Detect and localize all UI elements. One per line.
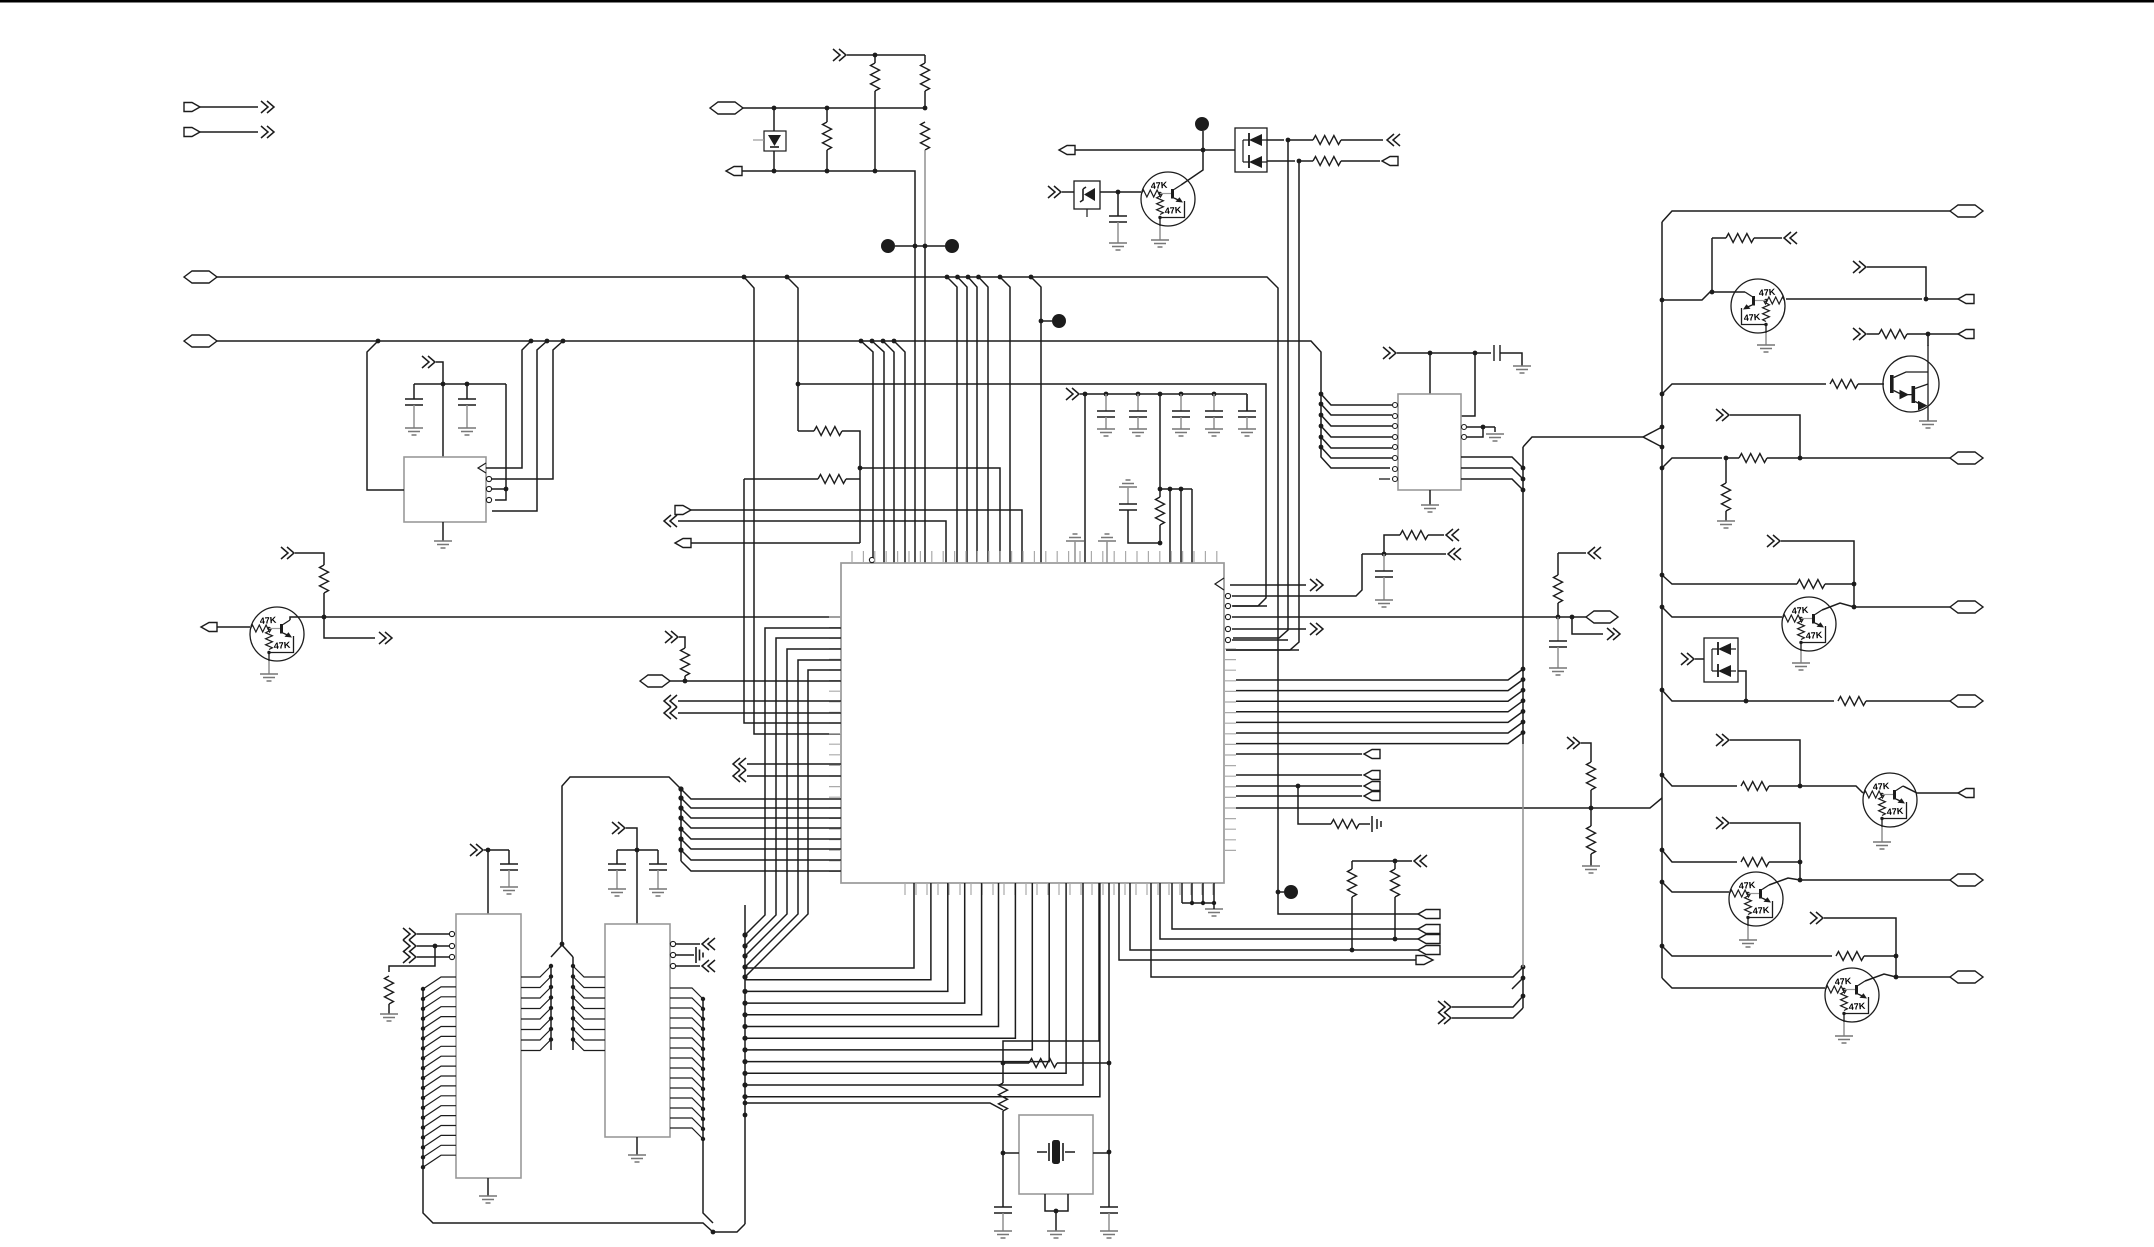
svg-text:47K: 47K xyxy=(1758,287,1776,298)
stem xyxy=(1213,903,1215,909)
U4 left pin wire xyxy=(423,1036,456,1048)
bus tap xyxy=(701,1117,705,1121)
bus tap xyxy=(1660,848,1665,853)
U3 pin bubble xyxy=(1393,414,1398,419)
wire xyxy=(1662,458,1722,468)
bus tap xyxy=(549,985,553,989)
port flag G xyxy=(675,506,691,515)
svg-text:47K: 47K xyxy=(1805,630,1823,641)
capacitor (decoupling) xyxy=(1172,411,1190,417)
bus tap xyxy=(549,1027,553,1031)
wire rail U1 xyxy=(414,383,506,385)
bus tap xyxy=(421,997,425,1001)
ground C6 xyxy=(649,889,667,896)
capacitor (decoupling) xyxy=(1129,411,1147,417)
transistor Q5 (digital, 47K) xyxy=(1863,773,1917,827)
capacitor C6 xyxy=(649,864,667,870)
ground xyxy=(1172,429,1190,436)
U5 left pin wire xyxy=(573,1040,605,1051)
bus drop to U-big top pin xyxy=(979,277,989,563)
wire from y=553 xyxy=(1557,553,1559,575)
U4 left pin wire xyxy=(423,1145,456,1157)
cap lead xyxy=(1105,394,1107,411)
bus top wire xyxy=(1662,211,1950,222)
bus wire to U2 bottom pin xyxy=(745,883,999,1027)
wire xyxy=(1800,879,1950,881)
junction Q1 collector node xyxy=(322,615,327,620)
bus tap xyxy=(549,1006,553,1010)
ground xyxy=(1097,429,1115,436)
Q8 collector wire xyxy=(1865,974,1896,981)
pin wire xyxy=(1213,883,1215,903)
transistor Q3 (NPN darlington) xyxy=(1883,345,1939,421)
U5 left pin wire xyxy=(573,998,605,1009)
bus merge V right xyxy=(562,945,573,957)
junction xyxy=(825,106,830,111)
bus tap xyxy=(421,1007,425,1011)
U4 pin bubble xyxy=(449,943,454,948)
bus tap xyxy=(1319,424,1324,429)
junction on rail B xyxy=(870,339,875,344)
wire to U-big top xyxy=(678,521,946,563)
off-page << xyxy=(733,770,746,782)
resistor R8 xyxy=(1331,820,1359,829)
bus tap xyxy=(1660,773,1665,778)
port flag E xyxy=(1059,146,1075,155)
Q7 emitter wire xyxy=(1159,226,1161,240)
bus tap xyxy=(1521,667,1526,672)
drop to R xyxy=(1159,394,1161,497)
off-page << xyxy=(733,758,746,770)
U4 right pin wire xyxy=(521,977,551,988)
junction xyxy=(1382,552,1387,557)
resistor R18 xyxy=(1797,580,1825,589)
junction xyxy=(1660,425,1665,430)
tap wire to U3 pin xyxy=(1321,415,1392,426)
wire xyxy=(1730,823,1800,862)
U5 right pin wire xyxy=(670,1128,703,1139)
wire xyxy=(1057,1062,1109,1064)
U3 gnd stem xyxy=(1429,490,1431,505)
wire ball B1 to drop xyxy=(1041,320,1052,322)
wire to Q1 xyxy=(217,626,250,628)
off-page >> xyxy=(612,822,625,834)
tap wire to U2 pin xyxy=(681,798,841,808)
wire xyxy=(1003,1062,1029,1064)
U2 pin wire to flag row y=939 xyxy=(1160,883,1418,939)
junction xyxy=(465,382,470,387)
junction xyxy=(441,382,446,387)
U4 left pin wire xyxy=(423,1135,456,1147)
U2 left pin wire (nested corner) xyxy=(745,660,841,967)
stub xyxy=(1074,541,1076,563)
junction xyxy=(1852,605,1857,610)
wire xyxy=(1062,191,1074,193)
U2 pin wire to flag row y=929 xyxy=(1172,883,1418,929)
wire to junction xyxy=(1128,510,1160,543)
right bus x=1523 middle xyxy=(1522,744,1524,967)
U3 pin stub xyxy=(1379,478,1390,480)
bus tap xyxy=(743,1113,748,1118)
wire D4 to row xyxy=(1738,671,1746,701)
capacitor (decoupling) xyxy=(1205,411,1223,417)
wire y=764 to U2 xyxy=(747,763,841,765)
off-page >> xyxy=(665,631,678,643)
bus x=573 xyxy=(572,957,574,1050)
wire cap rail U5 xyxy=(617,849,658,851)
junction V xyxy=(560,942,565,947)
junction on rail B xyxy=(529,339,534,344)
wire ball to drop xyxy=(1278,891,1284,893)
off-page >> xyxy=(1681,653,1694,665)
wire P2 xyxy=(200,131,258,133)
wire xyxy=(1362,553,1384,555)
junction on rail A xyxy=(955,275,960,280)
wire to U1 pin xyxy=(495,384,506,500)
wire xyxy=(1867,267,1926,299)
port flag M xyxy=(1418,925,1440,934)
bus drop to U-big top pin xyxy=(1000,277,1010,563)
U3 pin bubble xyxy=(1393,435,1398,440)
junction on rail B xyxy=(376,339,381,344)
transistor Q4 (digital, 47K) xyxy=(1782,597,1836,651)
junction xyxy=(1212,901,1216,905)
Q5 collector wire xyxy=(1903,786,1958,793)
U5 right pin wire xyxy=(670,1058,703,1069)
bus end wire to U2 pin xyxy=(681,861,841,871)
Q4 emitter wire xyxy=(1800,651,1802,663)
wire y=171 xyxy=(742,171,915,246)
bus tap xyxy=(1521,688,1526,693)
wire D1 bottom xyxy=(773,151,775,171)
off-page >> xyxy=(1716,409,1729,421)
net port N6 xyxy=(1950,971,1983,983)
right bus x=1523 lower xyxy=(1522,967,1524,1008)
junction cap rail xyxy=(1212,392,1217,397)
wire xyxy=(846,478,860,480)
bus drop to U-big top pin xyxy=(1031,277,1041,563)
port flag H xyxy=(675,539,691,548)
wire xyxy=(1557,603,1559,617)
ground Q8 xyxy=(1835,1036,1853,1043)
ground Y1 xyxy=(1047,1231,1065,1238)
wire xyxy=(1754,237,1782,239)
junction on rail A xyxy=(742,275,747,280)
capacitor C4 xyxy=(500,864,518,870)
U5 left pin wire xyxy=(573,1019,605,1030)
ground C8 xyxy=(1100,1231,1118,1238)
wire y=701 xyxy=(1662,690,1834,701)
bus drop to U-big top pin xyxy=(968,277,977,563)
bus top wire to column xyxy=(1523,437,1643,447)
bus tap xyxy=(742,943,747,948)
wire y=776 to U2 xyxy=(747,775,841,777)
resistor R7 xyxy=(1554,575,1563,603)
pin wire y=606 xyxy=(1232,605,1267,607)
wire xyxy=(413,405,415,428)
junction on rail B xyxy=(859,339,864,344)
port flag L3 xyxy=(1364,782,1380,791)
bus tap xyxy=(701,1137,705,1141)
bus tap xyxy=(701,1007,705,1011)
cap lead xyxy=(1213,417,1215,429)
ground Q5 xyxy=(1873,842,1891,849)
capacitor C2 xyxy=(458,399,476,405)
svg-text:47K: 47K xyxy=(1752,905,1770,916)
wire xyxy=(684,676,686,681)
wire xyxy=(466,405,468,428)
junction on rail A xyxy=(998,275,1003,280)
svg-text:47K: 47K xyxy=(1164,205,1182,216)
capacitor C3 xyxy=(1119,504,1137,510)
merge marker xyxy=(1643,427,1662,447)
capacitor C12 xyxy=(1494,345,1500,361)
U2 left pin wire (nested corner) xyxy=(745,649,841,956)
U1 pin bubble xyxy=(486,476,491,481)
off-page >> xyxy=(1853,328,1866,340)
ground C12 xyxy=(1513,366,1531,373)
bus tap xyxy=(1660,573,1665,578)
port flag IN1 xyxy=(201,623,217,632)
U5 right pin wire xyxy=(670,1018,703,1029)
stub xyxy=(1106,541,1108,563)
bus tap xyxy=(678,815,683,820)
ground C1 xyxy=(405,428,423,435)
resistor R16 xyxy=(1739,454,1767,463)
U4 right pin wire xyxy=(521,998,551,1009)
wire xyxy=(508,870,510,887)
bus tap xyxy=(701,1087,705,1091)
bus tap xyxy=(549,964,553,968)
long wire y=617 to U-big xyxy=(324,616,841,618)
port flag O2 xyxy=(1958,330,1974,339)
junction xyxy=(1001,1151,1006,1156)
off-page << xyxy=(664,515,677,527)
wire xyxy=(1853,584,1855,607)
wire xyxy=(842,431,860,543)
bus tap xyxy=(421,1155,425,1159)
U5 right pin wire xyxy=(670,1098,703,1109)
wire to Q5 xyxy=(1769,786,1863,793)
bus tap xyxy=(1521,709,1526,714)
pin wire y=617 long xyxy=(1232,616,1586,618)
ground Q3 xyxy=(1919,421,1937,428)
drop x=1299 to U-big pin xyxy=(1226,161,1299,650)
U4 gnd stem xyxy=(487,1178,489,1196)
junction xyxy=(1926,332,1931,337)
ground R3 xyxy=(380,1014,398,1021)
wire D3 out2 xyxy=(1267,160,1295,162)
bus tap xyxy=(742,932,747,937)
resistor R-D2 xyxy=(818,475,846,484)
wire xyxy=(1866,700,1950,702)
port flag L2 xyxy=(1364,771,1380,780)
wire P1 xyxy=(200,106,258,108)
U4 left pin wire xyxy=(423,997,456,1009)
U3 top pin wire xyxy=(1429,353,1431,394)
wire xyxy=(616,870,618,889)
wire xyxy=(1341,160,1380,162)
transistor Q8 (digital, 47K) xyxy=(1825,968,1879,1022)
drop tail + wire y=914 to flag xyxy=(1278,892,1418,914)
wire xyxy=(1662,850,1737,862)
junction xyxy=(1054,1209,1059,1214)
bus tap xyxy=(421,1056,425,1060)
U5 pin bubble xyxy=(670,963,675,968)
Q8 emitter wire xyxy=(1843,1022,1845,1036)
page top bar xyxy=(0,0,2154,3)
tap wire to U3 pin xyxy=(1321,426,1392,437)
tap wire to U2 pin xyxy=(681,839,841,849)
bus tap xyxy=(742,989,747,994)
U2 bottom pin stubs xyxy=(905,883,1213,895)
Q6 collector wire xyxy=(1769,878,1800,885)
bus tap xyxy=(678,847,683,852)
dual diode D4 (boxed) xyxy=(1704,638,1738,682)
bus tap xyxy=(1521,677,1526,682)
wire xyxy=(924,150,926,246)
U3 pin bubble r1 xyxy=(1462,425,1467,430)
pin wire y=808 to right bus xyxy=(1236,798,1662,808)
off-page >> xyxy=(1310,623,1323,635)
ground xyxy=(1109,243,1127,250)
cap lead xyxy=(1105,417,1107,429)
pin wire y=596 up xyxy=(1232,554,1362,596)
tap wire to U3 pin xyxy=(1321,437,1392,448)
bus tap xyxy=(743,1101,748,1106)
bus drop to U-big top pin xyxy=(958,277,968,563)
pin wire xyxy=(1181,883,1183,903)
junction xyxy=(1286,138,1291,143)
wire xyxy=(1867,333,1879,335)
wire to RC xyxy=(1298,786,1331,824)
junction xyxy=(1481,425,1486,430)
wire into Y1 xyxy=(1093,1152,1109,1154)
resistor R2 xyxy=(681,648,690,676)
bus tap xyxy=(678,826,683,831)
wire xyxy=(1769,861,1800,863)
net port C xyxy=(710,102,743,114)
port flag L4 xyxy=(1364,792,1380,801)
wire xyxy=(1695,658,1704,660)
U3 pin bubble xyxy=(1393,445,1398,450)
wire xyxy=(1895,956,1897,977)
cap lead xyxy=(1246,394,1248,411)
wire xyxy=(1558,552,1586,554)
cap lead xyxy=(1213,394,1215,411)
bus drop to U-big top pin xyxy=(883,341,894,563)
resistor R10 xyxy=(1587,826,1596,854)
U5 right pin wire xyxy=(670,1008,703,1019)
wire to U4 pin xyxy=(417,933,449,935)
bus tap xyxy=(742,1036,747,1041)
off-page >> xyxy=(1438,1012,1451,1024)
bus tap xyxy=(571,1027,575,1031)
pin wire y=775 xyxy=(1236,774,1362,776)
junction xyxy=(913,244,918,249)
U4 left pin wire xyxy=(423,1106,456,1118)
bus tap xyxy=(1660,298,1665,303)
wire to resistor pair xyxy=(691,542,860,544)
capacitor C8 xyxy=(1100,1207,1118,1213)
junction xyxy=(825,169,830,174)
wire to U4 xyxy=(487,850,489,914)
junction xyxy=(1393,937,1398,942)
bus wire to U2 bottom pin xyxy=(745,883,1066,1073)
IC U1 (box) xyxy=(404,457,486,522)
resistor R14 xyxy=(1830,380,1858,389)
U1 clock pin xyxy=(478,463,486,473)
bus tap xyxy=(742,974,747,979)
bus tap xyxy=(1319,402,1324,407)
wire xyxy=(1581,743,1591,762)
bus wire to U2 bottom pin xyxy=(745,883,1049,1062)
net port K xyxy=(1586,611,1618,623)
bus tap xyxy=(421,1165,425,1169)
wire xyxy=(1726,457,1739,459)
wire xyxy=(1127,487,1129,504)
junction on rail A xyxy=(976,275,981,280)
wire xyxy=(826,108,828,122)
U4 left pin wire xyxy=(423,977,456,989)
bus tap xyxy=(701,1017,705,1021)
tap wire to U2 pin xyxy=(681,808,841,818)
junction xyxy=(1798,878,1803,883)
U2 right pin wire to right bus xyxy=(1236,733,1523,744)
corner into cap5 xyxy=(1246,394,1248,411)
resistor R12 xyxy=(1391,869,1400,897)
drop x=744 (from R-D2) to U2 pin xyxy=(744,479,841,723)
U2 top pin stubs xyxy=(852,551,1217,563)
bus tap xyxy=(742,1071,747,1076)
bus wire to U2 bottom pin xyxy=(745,883,1032,1050)
bus tap xyxy=(421,1076,425,1080)
wire xyxy=(874,55,876,63)
transistor Q1 (digital, 47K) xyxy=(250,607,304,661)
junction xyxy=(923,106,928,111)
junction xyxy=(1296,784,1301,789)
pin wire y=650 xyxy=(1226,649,1299,651)
junction xyxy=(1798,784,1803,789)
wire xyxy=(1351,897,1353,950)
junction xyxy=(1297,159,1302,164)
node ball B4 xyxy=(1195,117,1209,131)
U3 pin bubble xyxy=(1393,403,1398,408)
wire y=713 to U2 xyxy=(678,712,841,714)
ground U3 pin xyxy=(1486,434,1504,441)
wire D1 top xyxy=(773,108,775,131)
cap lead xyxy=(1180,417,1182,429)
ground C2 xyxy=(458,428,476,435)
wire xyxy=(1662,775,1737,786)
main lower bus x=745 xyxy=(744,905,746,1224)
Q6 emitter wire xyxy=(1747,926,1749,940)
bus tap xyxy=(1521,488,1526,493)
right bus x=1523 upper xyxy=(1522,447,1524,744)
U3 pin wire to top rail xyxy=(1461,353,1475,416)
resistor R19 xyxy=(1838,697,1866,706)
off-page << xyxy=(1784,232,1797,244)
off-page >> xyxy=(470,844,483,856)
junction xyxy=(1116,190,1121,195)
U3 pin bubble xyxy=(1393,467,1398,472)
junction xyxy=(1473,351,1478,356)
bus wire to U2 bottom pin xyxy=(745,883,1083,1085)
bus tap xyxy=(701,1067,705,1071)
wire xyxy=(1662,946,1832,956)
U4 pin bubble xyxy=(449,931,454,936)
wire to >> xyxy=(1572,617,1603,634)
